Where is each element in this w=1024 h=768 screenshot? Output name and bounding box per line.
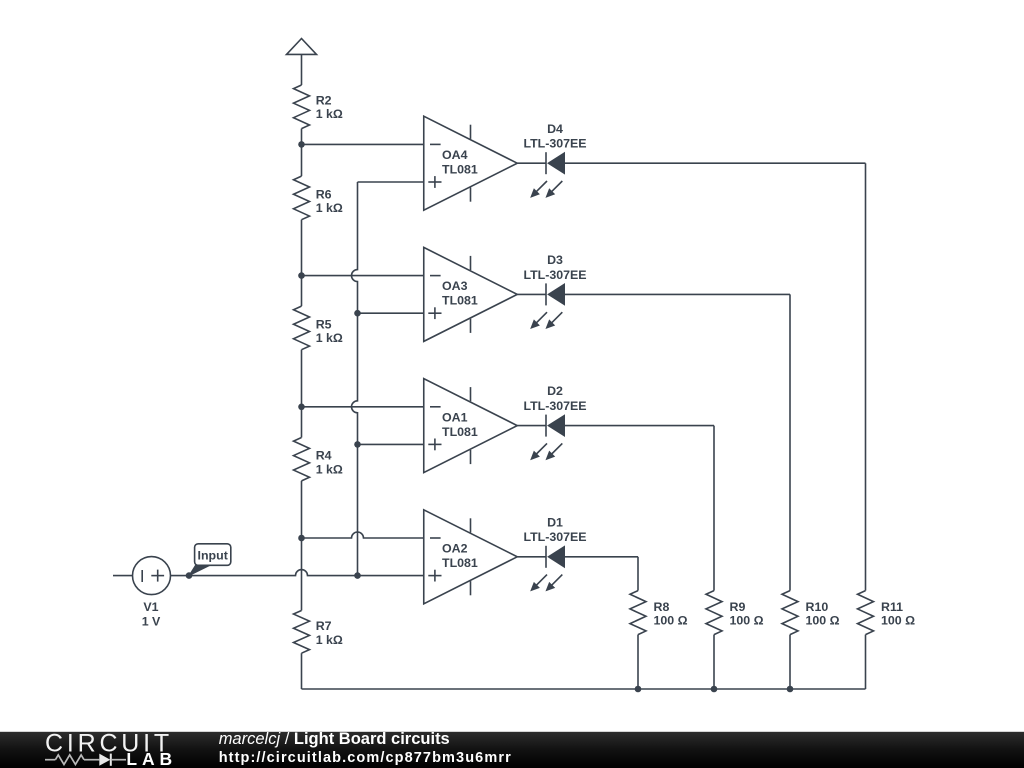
svg-text:V1: V1 xyxy=(143,600,158,614)
svg-text:TL081: TL081 xyxy=(442,163,478,177)
svg-text:1 kΩ: 1 kΩ xyxy=(316,331,343,345)
svg-text:1 kΩ: 1 kΩ xyxy=(316,107,343,121)
LED D4 LTL-307EE xyxy=(523,122,586,197)
CircuitLab logo xyxy=(45,729,177,768)
svg-text:D1: D1 xyxy=(547,515,563,529)
wire OA4 non-inverting input xyxy=(358,181,424,183)
svg-text:OA3: OA3 xyxy=(442,279,468,293)
svg-text:1 kΩ: 1 kΩ xyxy=(316,463,343,477)
svg-text:TL081: TL081 xyxy=(442,556,478,570)
wire R8 to bottom rail xyxy=(637,635,639,689)
svg-text:R6: R6 xyxy=(316,187,332,201)
node Input at V1 output xyxy=(186,572,193,579)
wire ladder R4-R7 xyxy=(301,481,303,611)
svg-text:TL081: TL081 xyxy=(442,294,478,308)
resistor R6 1 k xyxy=(294,176,343,220)
node OA2 inverting tap xyxy=(298,535,305,542)
LED D2 LTL-307EE xyxy=(523,384,586,459)
svg-text:Input: Input xyxy=(198,548,228,562)
wire D4 cathode to column xyxy=(565,162,866,164)
wire column R8 down xyxy=(637,557,639,591)
wire column R9 down xyxy=(713,426,715,591)
svg-text:LTL-307EE: LTL-307EE xyxy=(523,530,586,544)
wire OA3 inverting input xyxy=(302,275,424,277)
wire OA1 inverting input xyxy=(302,406,424,408)
wire input bus vertical with hops xyxy=(352,182,358,576)
svg-text:100 Ω: 100 Ω xyxy=(881,614,915,628)
wire ladder R5-R4 xyxy=(301,350,303,438)
wire OA4 inverting input xyxy=(302,143,424,145)
svg-text:OA4: OA4 xyxy=(442,148,468,162)
resistor R7 1 k xyxy=(294,611,343,654)
wire R10 to bottom rail xyxy=(789,635,791,689)
wire ladder R6-R5 xyxy=(301,220,303,306)
svg-text:R11: R11 xyxy=(881,600,903,614)
svg-text:http://circuitlab.com/cp877bm3: http://circuitlab.com/cp877bm3u6mrr xyxy=(219,750,512,766)
wire OA2 inverting input with hop over input bus xyxy=(302,532,424,538)
power supply V+ symbol xyxy=(287,39,317,86)
op-amp OA3 TL081 xyxy=(424,247,518,341)
LED D3 LTL-307EE xyxy=(523,253,586,328)
svg-text:1 V: 1 V xyxy=(142,615,161,629)
voltage source V1 1 V xyxy=(113,557,189,629)
resistor R11 100 Ohm xyxy=(858,591,916,635)
svg-text:R2: R2 xyxy=(316,93,332,107)
svg-text:1 kΩ: 1 kΩ xyxy=(316,201,343,215)
svg-text:TL081: TL081 xyxy=(442,425,478,439)
svg-text:R9: R9 xyxy=(730,600,746,614)
wire R11 to bottom rail xyxy=(865,635,867,689)
wire OA1 output to D2 xyxy=(517,425,546,427)
op-amp OA1 TL081 xyxy=(424,379,518,473)
svg-text:D2: D2 xyxy=(547,384,563,398)
svg-text:100 Ω: 100 Ω xyxy=(730,614,764,628)
node rail R8 xyxy=(635,686,642,693)
svg-text:R10: R10 xyxy=(806,600,829,614)
wire OA2 non-inverting input xyxy=(358,575,424,577)
LED D1 LTL-307EE xyxy=(523,515,586,590)
svg-text:R4: R4 xyxy=(316,449,332,463)
wire OA3 non-inverting input xyxy=(358,312,424,314)
svg-text:D3: D3 xyxy=(547,253,563,267)
op-amp OA2 TL081 xyxy=(424,510,518,604)
svg-text:R8: R8 xyxy=(654,600,670,614)
wire R9 to bottom rail xyxy=(713,635,715,689)
resistor R10 100 Ohm xyxy=(782,591,840,635)
svg-text:D4: D4 xyxy=(547,122,563,136)
wire D2 cathode to column xyxy=(565,425,715,427)
wire D3 cathode to column xyxy=(565,293,791,295)
wire bottom rail xyxy=(302,688,866,690)
flag label Input xyxy=(189,544,231,576)
svg-text:R5: R5 xyxy=(316,317,332,331)
svg-text:LTL-307EE: LTL-307EE xyxy=(523,268,586,282)
node OA1 inverting tap xyxy=(298,404,305,411)
node OA3 inverting tap xyxy=(298,272,305,279)
node OA4 inverting tap xyxy=(298,141,305,148)
wire D1 cathode to column xyxy=(565,556,639,558)
svg-text:1 kΩ: 1 kΩ xyxy=(316,633,343,647)
svg-text:LTL-307EE: LTL-307EE xyxy=(523,399,586,413)
wire column R10 down xyxy=(789,294,791,590)
footer title and url xyxy=(219,730,512,766)
resistor R5 1 k xyxy=(294,306,343,350)
svg-text:OA1: OA1 xyxy=(442,410,468,424)
svg-text:OA2: OA2 xyxy=(442,542,468,556)
footer bar xyxy=(0,732,1024,768)
wire OA3 output to D3 xyxy=(517,293,546,295)
node rail R9 xyxy=(711,686,718,693)
wire column R11 down xyxy=(865,163,867,590)
svg-text:marcelcj / Light Board circuit: marcelcj / Light Board circuits xyxy=(219,730,450,748)
resistor R8 100 Ohm xyxy=(630,591,688,635)
resistor R2 1 k xyxy=(294,85,343,129)
wire OA1 non-inverting input xyxy=(358,443,424,445)
svg-text:LTL-307EE: LTL-307EE xyxy=(523,137,586,151)
node rail R10 xyxy=(787,686,794,693)
svg-text:LAB: LAB xyxy=(126,749,177,768)
wire ladder R7 to bottom rail xyxy=(301,653,303,689)
wire OA4 output to D4 xyxy=(517,162,546,164)
svg-text:100 Ω: 100 Ω xyxy=(654,614,688,628)
wire V1 to input bus with hop over ladder xyxy=(189,570,358,576)
node OA1 non-inverting tap xyxy=(354,441,361,448)
op-amp OA4 TL081 xyxy=(424,116,518,210)
wire ladder R2-R6 xyxy=(301,129,303,177)
svg-text:R7: R7 xyxy=(316,619,332,633)
node OA3 non-inverting tap xyxy=(354,310,361,317)
resistor R9 100 Ohm xyxy=(706,591,764,635)
resistor R4 1 k xyxy=(294,438,343,481)
wire OA2 output to D1 xyxy=(517,556,546,558)
node input bus junction xyxy=(354,572,361,579)
svg-text:100 Ω: 100 Ω xyxy=(806,614,840,628)
